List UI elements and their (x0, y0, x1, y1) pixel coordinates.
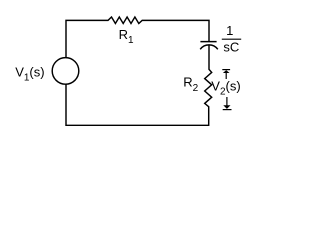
svg-text:V2(s): V2(s) (211, 78, 240, 97)
svg-text:1: 1 (226, 23, 233, 38)
svg-text:R1: R1 (119, 27, 134, 46)
svg-text:V1(s): V1(s) (15, 65, 44, 84)
svg-text:sC: sC (223, 40, 239, 55)
svg-text:R2: R2 (183, 75, 198, 94)
